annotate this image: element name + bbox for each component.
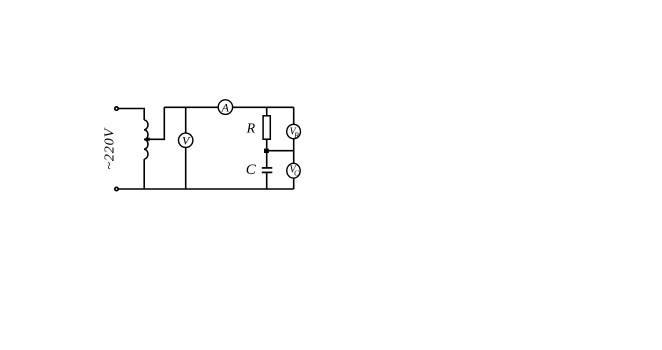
node junction dot [264, 149, 269, 153]
wire: resistor to node [266, 139, 268, 151]
capacitor C [262, 168, 273, 173]
wire: VR to VC [293, 139, 295, 164]
wire: top terminal to coil [118, 109, 144, 121]
svg-text:A: A [221, 100, 230, 114]
voltmeter VR [287, 124, 301, 138]
terminal top [115, 107, 118, 110]
wiper arrow on winding [144, 137, 150, 141]
svg-text:C: C [246, 162, 257, 178]
svg-text:~220V: ~220V [102, 127, 117, 169]
resistor R [263, 116, 270, 139]
wire: top rail right (ammeter to right corner) [233, 106, 294, 108]
svg-text:R: R [246, 121, 256, 136]
wire: capacitor to bottom rail [266, 173, 268, 189]
wire: coil bottom to bottom rail [143, 159, 145, 189]
terminal bottom [115, 187, 118, 190]
wire: top rail left (riser to ammeter) [164, 106, 218, 108]
voltmeter VC [287, 163, 300, 178]
wire: voltmeter V branch top [185, 107, 187, 133]
wire: R branch top [266, 107, 268, 116]
wire: right branch top corner to VR [293, 107, 295, 124]
wire: wiper tap to riser [149, 107, 164, 139]
wire: bottom rail [118, 188, 293, 190]
wire: VC to bottom rail corner [293, 178, 295, 189]
wire: voltmeter V branch bottom [185, 148, 187, 190]
ammeter A [218, 100, 232, 115]
voltmeter V [179, 133, 193, 147]
svg-text:R: R [293, 130, 299, 139]
wire: node to right branch [267, 150, 294, 152]
wire: node to capacitor [266, 153, 268, 168]
inductor L (autotransformer winding) [144, 120, 148, 159]
